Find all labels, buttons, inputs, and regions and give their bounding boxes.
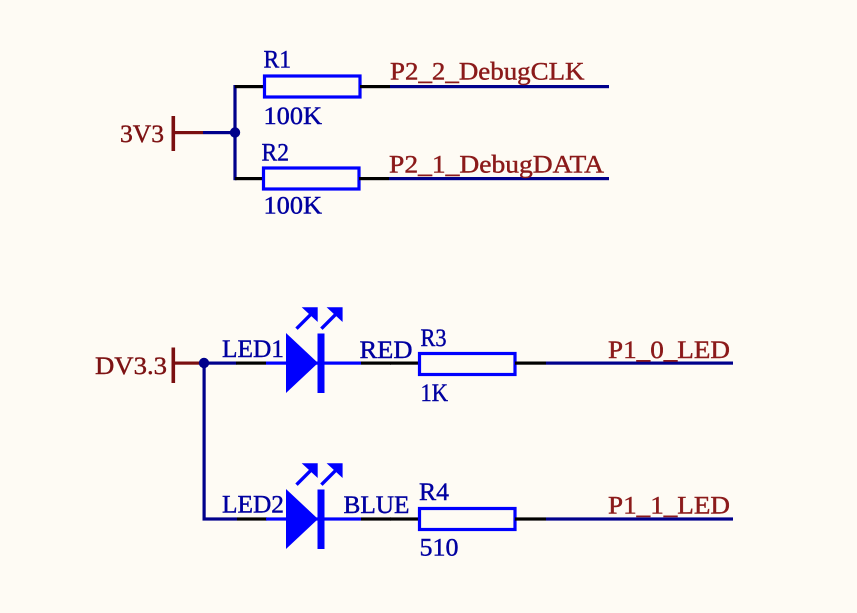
LED1 arrow 2 [327, 307, 343, 322]
LED LED2 [222, 463, 410, 549]
LED LED1 [222, 307, 413, 393]
3V3 pin [175, 131, 203, 134]
3V3 power bar [172, 116, 176, 151]
svg-text:P1_0_LED: P1_0_LED [608, 337, 730, 364]
svg-text:1K: 1K [421, 380, 449, 407]
LED2 body line [266, 517, 361, 520]
LED2 cathode bar [318, 490, 325, 550]
svg-text:DV3.3: DV3.3 [95, 353, 167, 380]
svg-text:R3: R3 [421, 325, 447, 352]
svg-text:P2_2_DebugCLK: P2_2_DebugCLK [390, 58, 585, 85]
svg-text:R2: R2 [262, 140, 290, 167]
LED2 triangle [286, 489, 318, 549]
svg-text:R1: R1 [264, 47, 292, 74]
wire net P1_0 [546, 362, 733, 365]
power port 3V3 [120, 116, 203, 151]
power port DV3.3 [95, 348, 203, 384]
svg-text:100K: 100K [264, 193, 323, 220]
LED1 triangle [286, 333, 318, 393]
wire net DebugCLK [390, 85, 609, 88]
wire vertical DV3.3 to LED2 row [203, 363, 206, 521]
pin 1 R3 [390, 362, 420, 365]
DV3.3 power bar [172, 348, 176, 384]
wire LED2 row horizontal start [203, 517, 238, 520]
LED2 arrow 2 [327, 463, 343, 478]
resistor R1 [235, 47, 390, 131]
pin 1 LED2 (cathode side) [361, 517, 391, 520]
pin 2 R2 [359, 177, 389, 180]
pin 1 R1 [235, 85, 265, 88]
R4 body [420, 509, 516, 530]
pin 1 LED1 (cathode side) [361, 362, 391, 365]
resistor R2 [235, 140, 389, 220]
LED2 arrow 1 [302, 463, 318, 478]
pin 2 LED2 (anode side) [237, 517, 267, 520]
wire vertical 3V3 branch [233, 85, 236, 180]
pin 2 R4 [515, 517, 546, 520]
pin 1 R4 [390, 517, 420, 520]
wire net DebugDATA [389, 177, 609, 180]
R3 body [420, 354, 516, 375]
wire junction to LED1 [203, 362, 237, 365]
LED1 body line [266, 362, 361, 365]
pin 2 R1 [360, 85, 390, 88]
svg-text:3V3: 3V3 [120, 121, 164, 148]
resistor R3 [390, 325, 546, 407]
resistor R4 [390, 479, 546, 562]
wire net P1_1 [546, 517, 733, 520]
svg-text:RED: RED [360, 337, 413, 364]
pin 2 R3 [515, 362, 546, 365]
DV3.3 pin [175, 362, 203, 365]
pin 1 R2 [235, 177, 265, 180]
R1 body [265, 76, 361, 97]
node junction DV3.3 [199, 358, 209, 368]
svg-text:510: 510 [420, 535, 459, 562]
svg-text:LED2: LED2 [222, 492, 284, 519]
pin 2 LED1 (anode side) [236, 362, 266, 365]
svg-text:P1_1_LED: P1_1_LED [608, 493, 730, 520]
svg-text:LED1: LED1 [222, 336, 284, 363]
node junction 3V3 [230, 127, 240, 137]
LED1 arrow 1 [302, 307, 318, 322]
svg-text:BLUE: BLUE [344, 492, 410, 519]
svg-text:P2_1_DebugDATA: P2_1_DebugDATA [389, 152, 604, 179]
LED1 cathode bar [318, 334, 325, 394]
svg-text:R4: R4 [419, 479, 450, 506]
wire 3V3 to junction [203, 131, 236, 134]
R2 body [264, 168, 360, 189]
svg-text:100K: 100K [264, 103, 323, 130]
